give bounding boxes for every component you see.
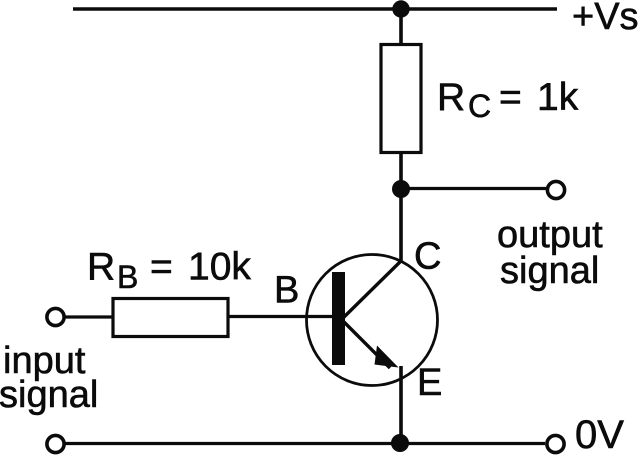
wire output <box>401 187 546 190</box>
svg-text:signal: signal <box>0 374 98 416</box>
svg-text:E: E <box>417 362 442 404</box>
label RB = 10k <box>87 246 251 296</box>
wire +Vs rail <box>73 7 557 10</box>
svg-text:R: R <box>437 76 465 119</box>
transistor Q1 collector stroke <box>343 260 402 318</box>
svg-text:0V: 0V <box>575 413 624 455</box>
resistor RB body <box>113 299 228 337</box>
wire RC top lead <box>399 9 403 46</box>
svg-text:10k: 10k <box>188 246 251 289</box>
label RC = 1k <box>437 76 579 124</box>
terminal output open circle <box>547 181 564 198</box>
transistor Q1 circle <box>307 255 438 386</box>
wire RC bottom lead <box>399 152 403 190</box>
node emitter junction on 0V rail <box>391 434 409 452</box>
svg-text:=: = <box>499 76 522 119</box>
terminal 0V left open circle <box>47 435 64 452</box>
svg-text:R: R <box>87 246 115 289</box>
wire 0V rail <box>65 442 545 445</box>
svg-text:+Vs: +Vs <box>572 0 639 38</box>
terminal input open circle <box>47 308 64 325</box>
svg-text:C: C <box>414 236 441 278</box>
svg-text:signal: signal <box>500 250 599 292</box>
svg-text:B: B <box>274 270 299 312</box>
node collector junction <box>392 180 410 198</box>
resistor RC body <box>381 45 421 153</box>
svg-text:1k: 1k <box>537 76 579 119</box>
wire collector vertical <box>399 189 403 262</box>
terminal 0V right open circle <box>547 435 564 452</box>
transistor Q1 emitter stroke with arrow <box>343 321 399 368</box>
wire emitter vertical <box>399 366 403 444</box>
label output signal <box>497 214 603 292</box>
node junction on +Vs rail <box>392 0 409 17</box>
wire base lead <box>228 315 334 318</box>
svg-text:B: B <box>117 259 138 295</box>
label input signal <box>0 340 98 416</box>
svg-text:C: C <box>468 88 491 124</box>
svg-text:=: = <box>150 246 173 289</box>
wire input lead <box>65 315 113 318</box>
transistor Q1 base bar <box>332 272 345 365</box>
